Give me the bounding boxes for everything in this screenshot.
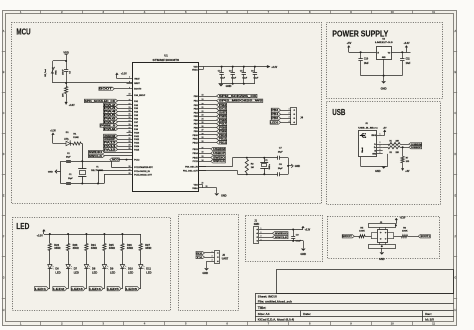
svg-text:SPI2_SCK/I2S_CK: SPI2_SCK/I2S_CK: [219, 96, 258, 98]
svg-text:14: 14: [129, 109, 131, 112]
svg-text:PB4: PB4: [272, 113, 280, 116]
svg-text:Date:: Date:: [303, 312, 311, 316]
svg-text:3: 3: [289, 117, 290, 119]
svg-text:VSS: VSS: [194, 184, 199, 186]
svg-text:GND: GND: [372, 154, 377, 156]
svg-text:D: D: [3, 152, 5, 156]
svg-text:B: B: [454, 70, 456, 74]
svg-text:SWCLK: SWCLK: [213, 161, 225, 163]
svg-text:Rev:: Rev:: [425, 312, 432, 316]
svg-text:SWCLK: SWCLK: [275, 237, 289, 239]
svg-text:SWD: SWD: [254, 223, 260, 226]
svg-text:PB3: PB3: [272, 109, 280, 112]
svg-text:23: 23: [202, 115, 204, 117]
svg-text:+3.3V: +3.3V: [121, 72, 127, 75]
svg-text:LED5: LED5: [107, 287, 119, 291]
svg-text:I2C2: I2C2: [219, 109, 228, 111]
svg-text:100K: 100K: [402, 231, 408, 233]
svg-text:PB5: PB5: [219, 116, 228, 118]
svg-text:BOOT0: BOOT0: [134, 89, 142, 91]
svg-text:20pF: 20pF: [278, 151, 283, 153]
svg-text:D7: D7: [74, 267, 78, 271]
svg-text:C: C: [3, 111, 5, 115]
svg-text:PD1_OSC_OUT: PD1_OSC_OUT: [183, 170, 198, 172]
svg-text:LED5: LED5: [270, 121, 279, 124]
svg-text:+3.3V: +3.3V: [400, 218, 406, 220]
svg-text:1: 1: [289, 109, 290, 111]
svg-text:VBAT: VBAT: [134, 78, 140, 81]
svg-text:SW_Push: SW_Push: [45, 68, 47, 76]
svg-text:R1: R1: [390, 141, 392, 143]
svg-text:C10: C10: [364, 59, 369, 61]
svg-text:PB10: PB10: [219, 135, 228, 137]
svg-text:GND: GND: [375, 170, 381, 173]
svg-text:PB2: PB2: [219, 105, 228, 107]
svg-text:PC13/TAMPER-RTC: PC13/TAMPER-RTC: [134, 166, 153, 169]
svg-text:B: B: [3, 70, 5, 74]
svg-text:VBUS: VBUS: [371, 135, 377, 137]
svg-text:13: 13: [129, 107, 131, 109]
svg-text:20pF: 20pF: [68, 178, 73, 180]
svg-text:MCU: MCU: [16, 26, 30, 36]
svg-text:KiCad E.D.A. kicad (6.0.4): KiCad E.D.A. kicad (6.0.4): [258, 318, 294, 322]
svg-text:GND: GND: [226, 84, 232, 88]
svg-text:PC13: PC13: [134, 160, 140, 162]
svg-text:18: 18: [129, 124, 131, 126]
svg-text:100nF: 100nF: [62, 69, 64, 75]
svg-text:330R: 330R: [145, 246, 151, 250]
svg-text:19: 19: [202, 99, 204, 101]
svg-text:34: 34: [202, 159, 204, 162]
svg-text:PB6: PB6: [219, 120, 228, 122]
svg-text:E: E: [455, 193, 457, 197]
svg-text:0.1uF: 0.1uF: [231, 78, 237, 80]
svg-text:SWCLK: SWCLK: [89, 156, 103, 158]
svg-text:USBDP: USBDP: [213, 153, 226, 155]
svg-text:8MHz: 8MHz: [269, 164, 271, 169]
svg-text:NRST: NRST: [134, 83, 140, 85]
svg-text:USBDM: USBDM: [411, 144, 422, 146]
svg-text:GND: GND: [221, 194, 227, 197]
svg-text:10K: 10K: [62, 93, 64, 97]
svg-text:+5V: +5V: [347, 41, 352, 45]
svg-text:PB7: PB7: [219, 124, 228, 126]
svg-text:1K5: 1K5: [406, 161, 409, 163]
svg-text:15: 15: [129, 114, 131, 116]
svg-text:19: 19: [129, 128, 131, 130]
svg-text:UART: UART: [222, 257, 229, 260]
svg-text:PB13: PB13: [193, 149, 199, 151]
svg-text:E: E: [3, 193, 5, 197]
svg-text:D10: D10: [128, 267, 133, 271]
svg-text:20: 20: [129, 131, 131, 133]
svg-text:SWDIO: SWDIO: [275, 233, 288, 235]
svg-text:+3.3V: +3.3V: [271, 66, 277, 69]
svg-text:10uF: 10uF: [364, 63, 369, 65]
svg-text:PB8: PB8: [219, 127, 228, 129]
svg-text:USBDP: USBDP: [411, 147, 422, 149]
svg-text:27: 27: [202, 130, 204, 132]
svg-text:21: 21: [129, 134, 131, 136]
svg-text:24: 24: [202, 118, 204, 121]
svg-text:PB10: PB10: [193, 135, 199, 137]
svg-text:H: H: [3, 308, 5, 312]
svg-text:0.1uF: 0.1uF: [242, 78, 248, 80]
svg-text:+3V: +3V: [405, 171, 410, 173]
svg-text:510E: 510E: [73, 137, 79, 139]
svg-text:330R: 330R: [109, 246, 115, 250]
svg-text:LED: LED: [110, 270, 115, 274]
svg-text:11: 11: [432, 10, 435, 14]
svg-text:Size: A4: Size: A4: [258, 312, 270, 316]
svg-text:330R: 330R: [54, 246, 60, 250]
svg-text:20: 20: [202, 104, 204, 106]
svg-text:PB15: PB15: [193, 157, 199, 159]
svg-text:32.768K: 32.768K: [91, 170, 104, 172]
svg-text:21: 21: [202, 107, 204, 109]
svg-text:USB_B_Micro: USB_B_Micro: [358, 126, 379, 129]
svg-text:7: 7: [129, 77, 130, 79]
svg-text:10: 10: [391, 322, 394, 326]
svg-text:32: 32: [202, 152, 204, 154]
svg-text:+3.3V: +3.3V: [305, 228, 311, 231]
svg-text:LED2: LED2: [53, 287, 65, 291]
svg-text:PB12: PB12: [193, 142, 199, 144]
svg-text:BOOT: BOOT: [343, 236, 353, 238]
svg-text:GND: GND: [202, 271, 208, 275]
svg-text:GND: GND: [48, 172, 53, 174]
svg-text:PC15-OSC32_OUT: PC15-OSC32_OUT: [134, 174, 152, 176]
svg-text:16: 16: [129, 117, 131, 119]
svg-text:Title:: Title:: [258, 306, 267, 310]
svg-text:24: 24: [129, 144, 131, 147]
svg-text:PWM_0: PWM_0: [100, 125, 116, 127]
svg-text:SPI1_SCK/LED_CK: SPI1_SCK/LED_CK: [85, 101, 116, 103]
svg-text:BOOT1: BOOT1: [421, 236, 431, 238]
svg-text:26: 26: [129, 166, 131, 168]
svg-text:File: untitled.kicad_sch: File: untitled.kicad_sch: [258, 300, 292, 304]
svg-text:STM32F103C8T6: STM32F103C8T6: [153, 58, 180, 62]
svg-text:LED: LED: [64, 138, 69, 140]
svg-text:SPI2_MISO/I2S_WS: SPI2_MISO/I2S_WS: [219, 101, 264, 103]
svg-text:D11: D11: [146, 267, 151, 271]
svg-text:12: 12: [129, 103, 131, 105]
svg-text:LED: LED: [128, 270, 133, 274]
svg-text:31: 31: [202, 148, 204, 150]
svg-text:LED3: LED3: [71, 287, 83, 291]
svg-text:20pF: 20pF: [278, 168, 283, 170]
svg-text:PB12: PB12: [219, 142, 228, 144]
svg-text:11: 11: [129, 99, 131, 101]
svg-text:G: G: [2, 276, 4, 280]
svg-text:GND: GND: [379, 258, 385, 261]
svg-text:20pF: 20pF: [66, 156, 71, 158]
svg-text:330R: 330R: [127, 246, 133, 250]
svg-text:PC13: PC13: [193, 161, 199, 163]
svg-text:PA0_WKUP: PA0_WKUP: [134, 94, 146, 97]
svg-text:SWDIO: SWDIO: [89, 152, 103, 154]
svg-text:D9: D9: [110, 267, 114, 271]
svg-text:VDDA: VDDA: [192, 68, 198, 71]
svg-text:28: 28: [129, 173, 131, 175]
svg-text:G: G: [454, 276, 456, 280]
svg-text:VSSA: VSSA: [192, 187, 198, 190]
svg-text:30: 30: [202, 141, 204, 143]
svg-text:28: 28: [202, 134, 204, 136]
svg-text:LM1117-3.3: LM1117-3.3: [375, 42, 394, 44]
svg-text:PB9: PB9: [219, 131, 228, 133]
svg-text:Shield: Shield: [362, 147, 364, 152]
svg-text:25: 25: [202, 122, 204, 124]
svg-text:9: 9: [129, 87, 130, 89]
svg-text:PD0_OSC_IN: PD0_OSC_IN: [185, 167, 198, 169]
svg-text:PC14-OSC32_IN: PC14-OSC32_IN: [134, 170, 150, 173]
svg-text:D+: D+: [374, 147, 376, 149]
svg-text:C: C: [454, 111, 456, 115]
svg-text:18: 18: [202, 95, 204, 97]
svg-text:LED1: LED1: [35, 287, 47, 291]
svg-text:A: A: [3, 29, 5, 33]
svg-text:USART3: USART3: [219, 111, 227, 114]
svg-text:29: 29: [202, 137, 204, 139]
svg-text:VDD: VDD: [193, 67, 198, 69]
svg-text:PB6: PB6: [272, 117, 280, 120]
svg-text:R7: R7: [406, 157, 408, 159]
svg-text:10: 10: [129, 94, 131, 96]
svg-text:LED: LED: [146, 270, 151, 274]
svg-text:+3.3V: +3.3V: [69, 104, 75, 107]
svg-text:D: D: [454, 152, 456, 156]
svg-text:LED4: LED4: [89, 287, 101, 291]
svg-text:17: 17: [129, 120, 131, 122]
svg-text:PB11: PB11: [219, 139, 228, 141]
svg-text:POWER SUPPLY: POWER SUPPLY: [332, 29, 388, 39]
svg-text:C11: C11: [406, 59, 411, 61]
svg-text:PB14: PB14: [193, 152, 199, 155]
svg-text:A: A: [454, 29, 456, 33]
svg-text:LED: LED: [16, 221, 29, 231]
svg-text:100K: 100K: [359, 231, 365, 233]
svg-text:23: 23: [201, 182, 203, 184]
svg-text:LED: LED: [92, 270, 97, 274]
svg-text:23: 23: [129, 141, 131, 143]
svg-text:VDD: VDD: [63, 50, 69, 54]
svg-text:1M: 1M: [251, 167, 254, 169]
svg-text:D6: D6: [55, 267, 59, 271]
svg-text:GND: GND: [295, 165, 301, 168]
svg-text:SWDIO: SWDIO: [213, 157, 225, 159]
svg-text:0.1uF: 0.1uF: [296, 241, 302, 243]
svg-text:USBDM: USBDM: [213, 149, 225, 151]
svg-text:25: 25: [129, 148, 131, 150]
svg-text:22: 22: [129, 138, 131, 140]
svg-text:BOOT: BOOT: [99, 89, 113, 91]
svg-text:GND: GND: [381, 86, 387, 90]
svg-text:0.1uF: 0.1uF: [220, 78, 226, 80]
svg-text:R2: R2: [390, 152, 392, 154]
svg-text:10: 10: [391, 10, 394, 14]
svg-text:10uF: 10uF: [406, 63, 411, 65]
svg-text:USB: USB: [332, 107, 345, 117]
svg-text:27: 27: [129, 169, 131, 171]
svg-text:GND: GND: [300, 252, 306, 256]
svg-text:330R: 330R: [91, 246, 97, 250]
svg-text:MCO: MCO: [112, 159, 119, 161]
svg-text:H: H: [454, 308, 456, 312]
svg-text:+3.3V: +3.3V: [404, 41, 410, 45]
svg-text:LED: LED: [55, 270, 60, 274]
svg-text:LED: LED: [74, 270, 79, 274]
svg-text:LED6: LED6: [126, 287, 138, 291]
svg-text:Sheet: /MCU/: Sheet: /MCU/: [258, 295, 277, 299]
svg-text:33: 33: [202, 156, 204, 158]
svg-text:D8: D8: [92, 267, 96, 271]
svg-text:+3.3V: +3.3V: [50, 129, 56, 132]
svg-text:0.1uF: 0.1uF: [254, 78, 260, 80]
svg-text:+3.3V: +3.3V: [37, 233, 43, 237]
svg-text:2: 2: [289, 113, 290, 115]
svg-text:11: 11: [432, 322, 435, 326]
svg-text:35: 35: [206, 186, 208, 188]
svg-text:PA15: PA15: [104, 148, 117, 151]
svg-text:26: 26: [202, 126, 204, 128]
svg-text:330R: 330R: [73, 246, 79, 250]
svg-text:Id: 2/5: Id: 2/5: [425, 318, 434, 322]
svg-text:22: 22: [202, 111, 204, 113]
